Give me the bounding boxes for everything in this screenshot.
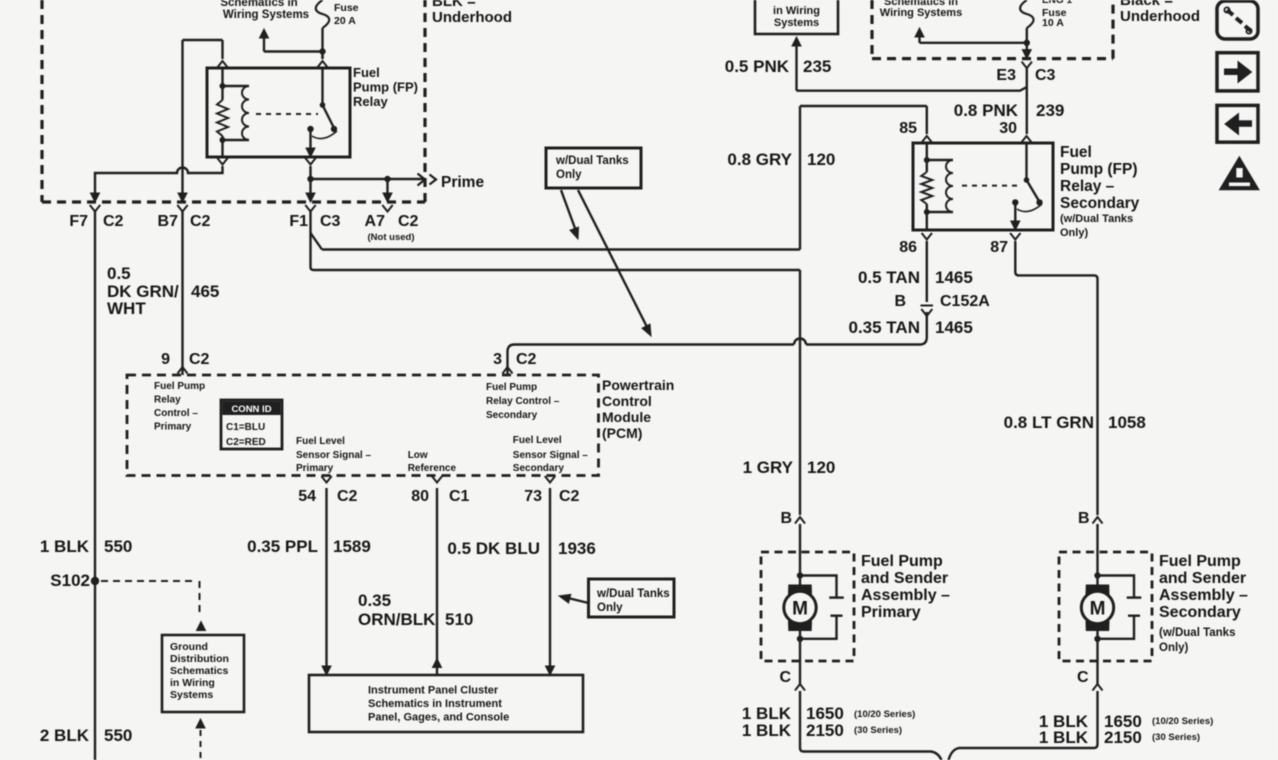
svg-text:(w/Dual Tanks: (w/Dual Tanks — [1060, 213, 1133, 225]
svg-text:(w/Dual Tanks: (w/Dual Tanks — [1159, 627, 1235, 639]
svg-text:Sensor Signal –: Sensor Signal – — [296, 450, 371, 461]
svg-text:Fuel: Fuel — [1060, 144, 1092, 161]
svg-text:ORN/BLK: ORN/BLK — [358, 610, 436, 629]
svg-text:Secondary: Secondary — [513, 463, 565, 474]
svg-text:Systems: Systems — [774, 17, 819, 29]
svg-text:1058: 1058 — [1108, 413, 1146, 432]
svg-text:1 GRY: 1 GRY — [743, 458, 794, 477]
svg-text:Relay: Relay — [353, 94, 388, 109]
svg-text:0.8 LT GRN: 0.8 LT GRN — [1004, 413, 1094, 432]
svg-text:(Not used): (Not used) — [368, 232, 415, 243]
svg-text:Wiring Systems: Wiring Systems — [223, 9, 309, 21]
svg-text:Schematics in: Schematics in — [220, 0, 297, 9]
svg-text:86: 86 — [899, 239, 917, 256]
svg-text:C2: C2 — [559, 488, 580, 505]
svg-text:Fuel: Fuel — [353, 65, 380, 80]
svg-text:0.35: 0.35 — [358, 591, 391, 610]
svg-text:20 A: 20 A — [334, 15, 356, 27]
svg-text:9: 9 — [161, 351, 170, 368]
svg-text:Fuel Level: Fuel Level — [513, 435, 562, 446]
svg-text:1465: 1465 — [935, 318, 973, 337]
svg-text:Underhood: Underhood — [1120, 8, 1200, 25]
svg-text:Primary: Primary — [296, 463, 334, 474]
svg-text:510: 510 — [445, 610, 473, 629]
svg-text:and Sender: and Sender — [861, 570, 948, 587]
svg-text:120: 120 — [807, 458, 835, 477]
svg-text:C2: C2 — [190, 213, 211, 230]
svg-text:239: 239 — [1036, 101, 1064, 120]
svg-text:1 BLK: 1 BLK — [1039, 728, 1089, 747]
svg-text:w/Dual Tanks: w/Dual Tanks — [596, 588, 670, 600]
svg-text:C152A: C152A — [940, 293, 990, 310]
svg-text:F1: F1 — [289, 213, 308, 230]
svg-text:Relay Control –: Relay Control – — [486, 396, 560, 407]
svg-text:0.8 GRY: 0.8 GRY — [727, 150, 792, 169]
svg-text:550: 550 — [104, 726, 132, 745]
svg-text:Only: Only — [556, 169, 582, 181]
svg-text:235: 235 — [803, 57, 831, 76]
svg-text:B: B — [780, 510, 792, 527]
svg-text:1465: 1465 — [935, 268, 973, 287]
svg-text:Module: Module — [602, 409, 651, 425]
svg-text:465: 465 — [191, 282, 219, 301]
svg-text:Secondary: Secondary — [486, 410, 538, 421]
svg-text:Control: Control — [602, 393, 652, 409]
svg-text:0.8 PNK: 0.8 PNK — [954, 101, 1019, 120]
svg-text:CONN ID: CONN ID — [231, 404, 271, 415]
svg-text:C2=RED: C2=RED — [226, 437, 266, 448]
svg-text:Primary: Primary — [861, 604, 921, 621]
svg-text:and Sender: and Sender — [1159, 570, 1246, 587]
svg-text:0.5: 0.5 — [107, 264, 131, 283]
svg-text:Pump (FP): Pump (FP) — [1060, 161, 1138, 178]
svg-text:2150: 2150 — [806, 721, 844, 740]
svg-text:in Wiring: in Wiring — [170, 677, 215, 689]
svg-text:Relay: Relay — [154, 395, 181, 406]
svg-text:Assembly –: Assembly – — [861, 587, 950, 604]
svg-text:B: B — [1078, 510, 1090, 527]
svg-text:Fuel Pump: Fuel Pump — [154, 381, 205, 392]
svg-text:1 BLK: 1 BLK — [742, 721, 792, 740]
svg-text:Fuel Pump: Fuel Pump — [486, 382, 537, 393]
svg-text:54: 54 — [298, 488, 316, 505]
svg-text:Schematics in Instrument: Schematics in Instrument — [368, 698, 502, 710]
svg-text:C3: C3 — [1035, 67, 1056, 84]
svg-text:87: 87 — [990, 239, 1008, 256]
svg-text:C1=BLU: C1=BLU — [226, 422, 265, 433]
svg-text:Fuel Pump: Fuel Pump — [861, 553, 943, 570]
svg-text:Only): Only) — [1159, 642, 1189, 654]
svg-text:A7: A7 — [365, 213, 386, 230]
svg-text:2 BLK: 2 BLK — [40, 726, 90, 745]
svg-text:Secondary: Secondary — [1060, 195, 1140, 212]
svg-text:30: 30 — [999, 120, 1017, 137]
svg-text:Instrument Panel Cluster: Instrument Panel Cluster — [368, 685, 499, 697]
svg-text:in Wiring: in Wiring — [773, 5, 820, 17]
svg-text:1589: 1589 — [333, 537, 371, 556]
svg-text:C1: C1 — [449, 488, 470, 505]
svg-text:Pump (FP): Pump (FP) — [353, 80, 418, 95]
svg-text:w/Dual Tanks: w/Dual Tanks — [555, 155, 629, 167]
svg-text:Fuse: Fuse — [334, 2, 359, 14]
svg-text:WHT: WHT — [107, 299, 146, 318]
svg-text:0.35 TAN: 0.35 TAN — [849, 318, 921, 337]
svg-text:Powertrain: Powertrain — [602, 377, 674, 393]
svg-text:Fuel Pump: Fuel Pump — [1159, 553, 1241, 570]
svg-text:C2: C2 — [189, 351, 210, 368]
svg-text:(PCM): (PCM) — [602, 425, 642, 441]
svg-text:Relay –: Relay – — [1060, 178, 1115, 195]
svg-text:Wiring Systems: Wiring Systems — [880, 7, 962, 19]
svg-text:80: 80 — [411, 488, 429, 505]
svg-text:F7: F7 — [69, 213, 88, 230]
svg-text:Low: Low — [408, 450, 428, 461]
svg-text:Distribution: Distribution — [170, 653, 229, 665]
svg-text:Only): Only) — [1060, 227, 1088, 239]
svg-text:73: 73 — [524, 488, 542, 505]
svg-text:B: B — [894, 293, 906, 310]
svg-text:E3: E3 — [996, 67, 1016, 84]
svg-text:(10/20 Series): (10/20 Series) — [854, 709, 915, 720]
svg-text:85: 85 — [899, 120, 917, 137]
svg-text:1 BLK: 1 BLK — [40, 537, 90, 556]
svg-text:ENG 1: ENG 1 — [1042, 0, 1072, 6]
svg-text:550: 550 — [104, 537, 132, 556]
svg-text:120: 120 — [807, 150, 835, 169]
svg-text:C3: C3 — [320, 213, 341, 230]
svg-text:(30 Series): (30 Series) — [854, 725, 902, 736]
svg-text:B7: B7 — [158, 213, 179, 230]
svg-text:3: 3 — [493, 351, 502, 368]
svg-text:(30 Series): (30 Series) — [1152, 732, 1200, 743]
svg-text:Schematics: Schematics — [170, 665, 229, 677]
svg-text:Underhood: Underhood — [432, 9, 512, 26]
svg-text:Assembly –: Assembly – — [1159, 587, 1248, 604]
svg-text:Control –: Control – — [154, 408, 198, 419]
svg-text:C2: C2 — [516, 351, 537, 368]
svg-text:0.5 TAN: 0.5 TAN — [858, 268, 920, 287]
svg-text:C2: C2 — [398, 213, 419, 230]
svg-text:C2: C2 — [103, 213, 124, 230]
svg-text:Prime: Prime — [441, 174, 484, 191]
svg-text:Ground: Ground — [170, 641, 208, 653]
svg-text:Sensor Signal –: Sensor Signal – — [513, 450, 588, 461]
svg-text:(10/20 Series): (10/20 Series) — [1152, 716, 1213, 727]
svg-text:0.5 PNK: 0.5 PNK — [725, 57, 790, 76]
svg-text:C2: C2 — [337, 488, 358, 505]
svg-text:Secondary: Secondary — [1159, 604, 1241, 621]
svg-text:M: M — [1090, 599, 1106, 620]
svg-text:C: C — [779, 669, 791, 686]
svg-text:Panel, Gages, and Console: Panel, Gages, and Console — [368, 712, 509, 724]
svg-text:Only: Only — [597, 602, 623, 614]
svg-text:Fuel Level: Fuel Level — [296, 436, 345, 447]
svg-text:S102: S102 — [50, 571, 90, 590]
svg-text:Primary: Primary — [154, 422, 192, 433]
svg-text:0.35 PPL: 0.35 PPL — [247, 537, 318, 556]
svg-text:M: M — [792, 599, 808, 620]
svg-text:Reference: Reference — [408, 463, 457, 474]
svg-text:2150: 2150 — [1104, 728, 1142, 747]
svg-text:C: C — [1077, 669, 1089, 686]
svg-text:10 A: 10 A — [1042, 17, 1064, 29]
svg-text:0.5 DK BLU: 0.5 DK BLU — [447, 539, 540, 558]
svg-text:Systems: Systems — [170, 689, 213, 701]
svg-text:1936: 1936 — [558, 539, 596, 558]
